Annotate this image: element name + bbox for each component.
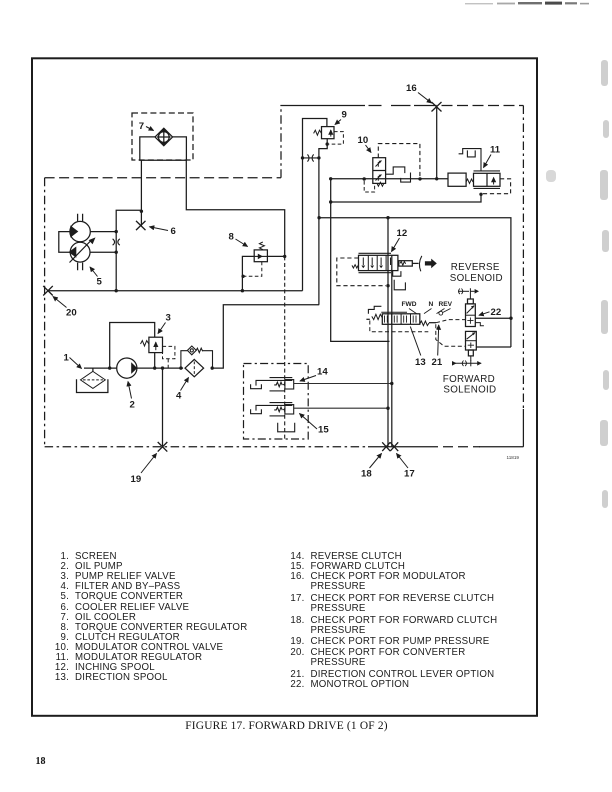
wire: enclosure top-left dashed boundary [45,177,281,179]
svg-text:FWD: FWD [402,301,417,308]
label 16 [406,83,432,103]
wire: regulator branch vertical [318,158,320,305]
label 13 [410,327,425,369]
leader REV line 1 [437,309,445,314]
svg-text:12: 12 [397,228,408,239]
direction spool dashed drain box [370,321,429,332]
label 14 [300,367,328,382]
wire: reverse clutch line [294,383,392,385]
inching spool dashed box [337,258,386,286]
valve 11 pilot dashed box [483,179,511,194]
inching spool exhaust brackets [393,271,406,290]
legend left column [40,552,117,562]
scan artifact top streak [465,2,589,5]
svg-text:REV: REV [439,301,453,308]
wire: converter left loop [59,232,70,253]
svg-text:8: 8 [229,232,235,243]
label 2 [128,382,135,411]
wire: regulated line valve10 to valve11 [331,178,448,180]
svg-text:19: 19 [131,474,142,485]
svg-text:21: 21 [432,357,443,368]
svg-text:16: 16 [406,83,417,94]
wire: top boundary dash segments [369,105,411,107]
svg-text:4: 4 [176,391,182,402]
wire: converter bottom outlet [90,232,116,253]
label 1 [64,353,82,369]
oil pump 2 [117,358,138,378]
torque converter 5 [69,214,96,270]
svg-text:17: 17 [404,469,415,480]
svg-text:FORWARD: FORWARD [443,374,495,385]
wire: regulator 9 vertical to main line [302,158,304,291]
label 9 [335,110,347,125]
reverse clutch 14 [251,378,294,391]
forward solenoid valve [452,331,482,366]
leader FWD [409,309,417,314]
check port X16 [432,102,442,112]
wire: enclosure bottom dash-dot boundary [45,446,368,448]
label 3 [158,313,171,334]
leader N [424,309,432,314]
svg-text:9: 9 [342,110,347,121]
svg-text:REVERSE: REVERSE [451,262,500,273]
valve 10 drain dashed box [364,181,374,192]
svg-text:10: 10 [358,135,369,146]
valve 11 top bracket [459,149,481,171]
check port X18 [382,442,390,451]
svg-text:11: 11 [490,145,501,156]
filter 4 by-pass loop [181,346,213,368]
label 18 [361,454,382,480]
wire: spool supply header [319,218,511,347]
wire: pump loop to relief valve 3 [110,323,155,369]
reverse solenoid valve 22 [458,288,479,326]
forward clutch 15 [251,403,294,416]
outer border frame [32,58,537,716]
leader REV line 2 [443,309,451,313]
wire: reverse clutch supply vertical [391,255,393,446]
wire: dashed drop to forward solenoid [436,324,466,346]
direction spool 13 [366,312,436,325]
wire: regulator 8 pilot dashed [245,262,262,277]
label 17 [397,454,415,480]
svg-text:7: 7 [139,121,144,132]
svg-text:5: 5 [97,277,103,288]
wire: regulator 9 supply loop [303,119,327,158]
orifice between converter ports [113,239,120,245]
wire: regulator 8 left loop [242,256,254,290]
clutch housing dash-dot box [244,364,309,440]
check port X17 [390,442,398,451]
wire: converter return dashed drop [284,256,286,439]
svg-text:2: 2 [130,400,135,411]
wire: cooler left pipe down [140,160,142,226]
svg-text:13: 13 [415,357,426,368]
wire: forward solenoid to right branch [476,346,511,348]
label 19 [131,454,157,486]
label 11 [484,145,501,168]
svg-text:3: 3 [166,313,171,324]
label 6 [150,226,176,237]
svg-text:20: 20 [66,308,77,319]
terminal circle on REV link [439,311,443,315]
legend right column [277,552,402,562]
label 4 [176,378,189,402]
svg-text:SOLENOID: SOLENOID [443,385,496,396]
direction spool top bracket [368,306,381,314]
label 15 [300,414,330,436]
valve 10 pilot dashed box [378,144,420,178]
modulator control valve 10 [373,158,386,187]
wire: top boundary solid segment [280,105,365,107]
cooler relief X6 [136,221,146,230]
wire: forward clutch line [294,407,388,409]
wire: filter outlet riser to spools [212,305,319,368]
clutch sump cup [278,423,295,432]
label 8 [229,232,248,247]
wire: top boundary dashed segment [442,105,524,107]
wire: link to reverse solenoid dashed [436,320,466,323]
page number [36,756,46,767]
svg-text:18: 18 [361,469,372,480]
clutch regulator 9 [314,127,344,145]
wire: drain line under valve 11 [331,195,481,202]
svg-text:6: 6 [171,226,176,237]
check port X20 [43,286,53,296]
torque converter regulator 8 [254,242,267,262]
wire: regulator 8 outlet [267,255,284,257]
svg-text:14: 14 [317,367,328,378]
orifice under regulator 9 [303,157,319,159]
oil cooler 7 solid box [140,137,187,160]
wire: enclosure right dash-dot boundary [522,106,524,411]
pump relief valve 3 [141,337,175,368]
screen 1 diamond [81,371,106,388]
label 12 [392,228,408,252]
svg-text:1: 1 [64,353,70,364]
filter 4 diamond [185,359,204,376]
wire: cooler right pipe to regulator 8 [186,160,284,256]
svg-text:22: 22 [491,307,502,318]
label 20 [53,297,77,319]
oil cooler 7 dashed box [132,113,193,160]
figure caption [0,720,573,732]
wire: enclosure riser dash-dot [280,106,282,178]
label 5 [90,267,103,288]
wire: converter top outlet [90,210,141,231]
wire: reverse solenoid to monotrol node [475,317,511,319]
wire: regulator 9 drain [319,139,327,158]
wire: modulator check vertical [436,106,438,179]
label 22 [479,307,501,318]
label 10 [358,135,372,153]
valve 10 staircase port [386,167,411,182]
label 7 [139,121,154,132]
wire: pump outlet line [137,367,183,369]
label 21 [432,325,443,368]
wire: converter drain to main line [115,252,117,291]
screen 1 container [77,379,108,392]
svg-text:SOLENOID: SOLENOID [450,273,503,284]
inching spool 12 [352,253,437,272]
svg-text:15: 15 [318,425,329,436]
scan artifact right edge smudges [546,60,609,508]
svg-text:N: N [429,301,434,308]
wire: enclosure left dash-dot boundary [44,178,46,447]
label REVERSE SOLENOID [450,262,503,284]
wire: screen to pump [84,368,117,371]
wire: converter pressure main line [48,290,303,292]
label FORWARD SOLENOID [443,374,497,396]
modulator regulator 11 [448,171,500,189]
svg-text:11819: 11819 [507,455,520,460]
wire: forward clutch supply vertical [387,218,389,447]
reverse solenoid drain bracket [475,323,484,326]
wire: pump drain to X19 [162,368,164,447]
oil cooler 7 symbol [155,128,173,146]
wire: left branch vertical to spool box [331,179,390,342]
check port X19 [158,442,168,452]
